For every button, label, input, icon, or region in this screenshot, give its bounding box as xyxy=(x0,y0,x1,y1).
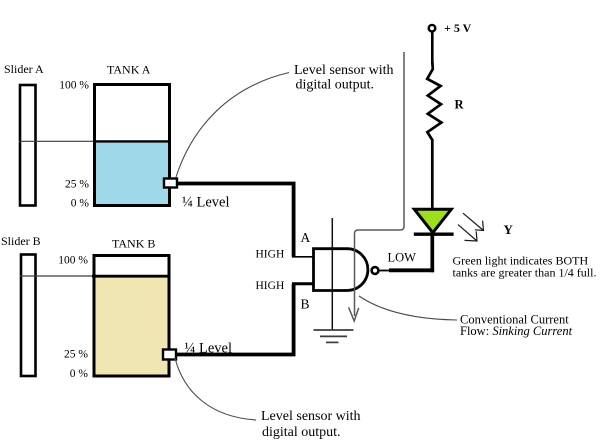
light arrow 1 xyxy=(463,213,484,230)
svg-text:Slider B: Slider B xyxy=(1,234,41,248)
tank A water xyxy=(95,140,169,205)
svg-text:25 %: 25 % xyxy=(65,179,89,191)
svg-text:25 %: 25 % xyxy=(64,349,88,361)
level sensor A xyxy=(164,179,177,188)
resistor R xyxy=(427,62,441,140)
output lead xyxy=(380,270,391,272)
light arrow 2 xyxy=(458,225,477,241)
svg-text:Level sensor with: Level sensor with xyxy=(261,409,361,424)
callout curve to sensor A xyxy=(176,73,289,178)
svg-text:100 %: 100 % xyxy=(59,80,89,92)
svg-text:HIGH: HIGH xyxy=(256,249,285,261)
level line A xyxy=(19,140,170,142)
svg-text:tanks are greater than 1/4 ful: tanks are greater than 1/4 full. xyxy=(453,266,597,280)
callout curve conventional current xyxy=(359,296,457,320)
svg-text:0 %: 0 % xyxy=(70,368,89,380)
gate ground line xyxy=(331,218,333,330)
svg-text:TANK A: TANK A xyxy=(107,63,151,77)
output wire LOW to LED xyxy=(389,268,434,272)
LED cathode bar xyxy=(414,232,454,235)
sinking current arrowhead xyxy=(349,307,359,321)
svg-text:digital output.: digital output. xyxy=(262,425,341,440)
wire LED cathode down xyxy=(430,236,434,273)
svg-text:Slider A: Slider A xyxy=(4,62,44,76)
level line B xyxy=(20,275,170,277)
svg-text:digital output.: digital output. xyxy=(296,77,375,92)
svg-text:+ 5 V: + 5 V xyxy=(444,21,472,35)
tank B water surface line xyxy=(92,275,170,278)
slider A xyxy=(20,85,36,206)
svg-text:A: A xyxy=(301,230,311,245)
svg-text:B: B xyxy=(301,297,310,312)
svg-text:R: R xyxy=(455,97,465,111)
svg-text:Level sensor with: Level sensor with xyxy=(294,63,394,78)
wire A final segment xyxy=(292,256,313,258)
wire 5V to resistor xyxy=(431,33,434,65)
svg-text:¼ Level: ¼ Level xyxy=(182,194,230,210)
output bubble xyxy=(372,267,379,274)
wire sensor B to gate input B xyxy=(177,284,294,355)
svg-text:Y: Y xyxy=(504,222,514,237)
svg-text:Flow: Sinking Current: Flow: Sinking Current xyxy=(460,324,573,338)
svg-text:HIGH: HIGH xyxy=(256,280,285,292)
svg-text:TANK B: TANK B xyxy=(112,237,155,251)
wire sensor A to gate input A xyxy=(178,184,294,257)
svg-text:100 %: 100 % xyxy=(58,255,88,267)
+5V terminal xyxy=(429,25,436,32)
svg-text:0 %: 0 % xyxy=(71,198,90,210)
svg-text:LOW: LOW xyxy=(388,251,417,265)
tank B xyxy=(94,256,169,377)
NAND gate U1 xyxy=(314,249,368,291)
wire B final segment xyxy=(292,282,313,285)
slider B xyxy=(21,255,36,377)
ground xyxy=(314,330,354,342)
LED D1 xyxy=(414,209,451,232)
wire resistor to LED xyxy=(431,139,434,208)
tank A water surface line xyxy=(93,140,170,142)
callout curve to sensor B xyxy=(175,358,256,420)
tank B water xyxy=(94,275,169,376)
level sensor B xyxy=(163,350,176,360)
tank A xyxy=(95,85,170,206)
sinking current annotation path xyxy=(355,52,405,316)
